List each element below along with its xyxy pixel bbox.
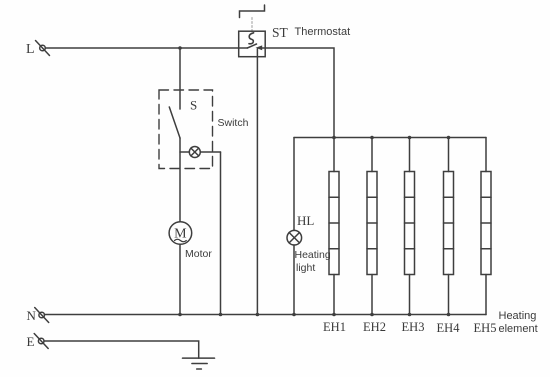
wire L line to thermostat <box>45 47 239 49</box>
wire motor to N <box>179 244 181 314</box>
terminal N <box>27 308 49 324</box>
svg-text:Heating: Heating <box>295 249 331 261</box>
terminal L <box>26 41 50 58</box>
node junction L/switch <box>178 46 182 50</box>
heating element EH4 <box>437 136 461 335</box>
node motor on N <box>178 313 182 317</box>
node lamp on N <box>219 313 223 317</box>
wire thermostat bottom to N <box>256 49 258 315</box>
svg-text:Heating: Heating <box>499 310 537 322</box>
wire N line <box>44 314 486 316</box>
wire switch drop from L <box>179 48 181 90</box>
svg-text:Motor: Motor <box>185 248 212 260</box>
indicator light HL <box>287 138 331 315</box>
heating element EH5 <box>474 138 497 336</box>
motor M <box>169 222 212 260</box>
thermostat ST <box>239 5 350 57</box>
svg-text:Switch: Switch <box>218 117 249 129</box>
svg-text:element: element <box>499 323 538 335</box>
wire lamp drop to N <box>220 152 222 315</box>
heating element EH3 <box>402 136 425 334</box>
svg-text:L: L <box>26 42 35 57</box>
svg-text:EH1: EH1 <box>323 320 346 334</box>
wire thermostat output to heater bus <box>265 48 334 138</box>
heating element EH1 <box>323 136 346 334</box>
ground <box>183 358 215 369</box>
svg-text:S: S <box>190 98 197 113</box>
svg-text:HL: HL <box>297 213 314 228</box>
wire heater top bus <box>294 137 486 139</box>
node thermostat drop on N <box>256 313 260 317</box>
terminal E <box>27 334 49 350</box>
svg-text:EH2: EH2 <box>363 320 386 334</box>
svg-text:Thermostat: Thermostat <box>295 26 351 38</box>
switch S <box>159 90 213 222</box>
heating element EH2 <box>363 136 386 334</box>
label heating element <box>499 310 538 335</box>
wire E line <box>44 341 199 358</box>
svg-text:EH3: EH3 <box>402 320 425 334</box>
node HL on N <box>292 313 296 317</box>
lamp (switch indicator) <box>180 117 249 158</box>
svg-text:N: N <box>27 308 37 323</box>
svg-text:E: E <box>27 334 35 349</box>
svg-text:light: light <box>296 262 315 274</box>
svg-text:EH4: EH4 <box>437 321 461 335</box>
svg-text:EH5: EH5 <box>474 321 497 335</box>
svg-text:ST: ST <box>272 25 289 40</box>
